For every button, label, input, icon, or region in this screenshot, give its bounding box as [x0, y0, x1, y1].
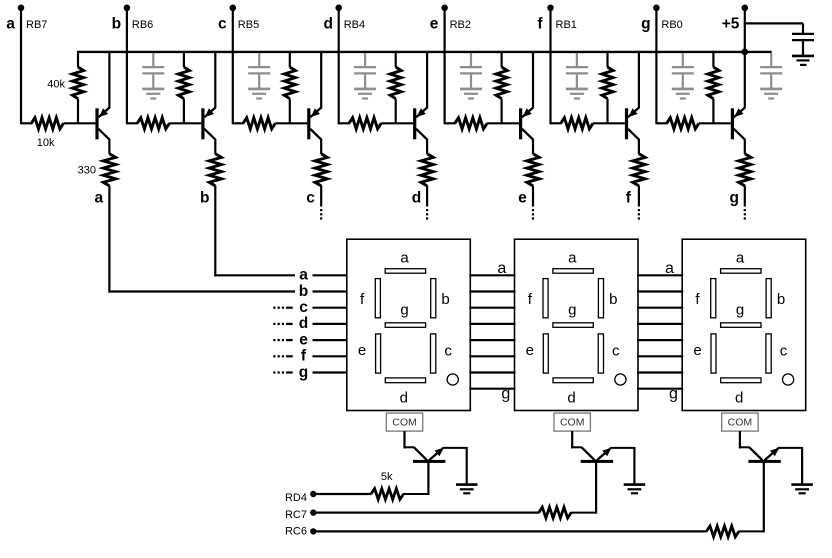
svg-text:g: g [568, 302, 576, 319]
svg-text:+5: +5 [722, 15, 740, 32]
wire bus row f to display 1 [313, 355, 348, 357]
ground digit driver 2 [624, 485, 646, 494]
node RC7 terminal dot [310, 509, 316, 515]
node c terminal dot (RB5) [230, 5, 237, 12]
wire bus row c dashed continuation [273, 307, 293, 309]
ground capacitor cell f (gray) [566, 89, 588, 99]
wire segment g output stub [744, 186, 746, 207]
wire collector cell d [426, 139, 428, 154]
resistor 10k base cell g [667, 118, 731, 129]
segment labels of DIS3 [693, 249, 787, 406]
segment g of DIS3 [721, 323, 761, 328]
decimal point of DIS3 [783, 374, 794, 385]
wire bus row b to display 1 [313, 290, 348, 292]
svg-text:g: g [400, 302, 408, 319]
resistor 330 segment f [633, 154, 645, 186]
resistor 10k base cell a [31, 118, 95, 129]
segment g of DIS2 [553, 323, 593, 328]
segment a of DIS1 [385, 269, 425, 274]
wire bus display 1 to display 2 (8 lines) [469, 275, 515, 388]
ground capacitor cell c (gray) [248, 89, 270, 99]
resistor 10k base cell e [455, 118, 519, 129]
continuation dots segment c [320, 209, 322, 220]
svg-text:d: d [412, 190, 421, 207]
ground digit driver 3 [791, 485, 813, 494]
svg-text:g: g [641, 15, 650, 32]
svg-text:a: a [736, 249, 745, 266]
transistor Q6 PNP segment driver f [625, 51, 639, 140]
segment c of DIS1 [431, 334, 436, 373]
svg-text:a: a [400, 249, 409, 266]
capacitor bypass cell f (gray) [566, 53, 588, 88]
resistor 40k pullup cell c [284, 51, 295, 123]
svg-text:RD4: RD4 [285, 492, 307, 504]
wire RB1 input vertical [549, 8, 551, 125]
resistor 10k base cell c [243, 118, 307, 129]
svg-text:RC7: RC7 [285, 509, 307, 521]
node d input label [323, 15, 365, 32]
node e input label [430, 15, 471, 32]
svg-text:g: g [736, 302, 744, 319]
node g terminal dot (RB0) [653, 5, 660, 12]
svg-text:RB6: RB6 [132, 19, 153, 31]
svg-text:5k: 5k [381, 471, 393, 483]
segment b of DIS2 [598, 279, 603, 318]
resistor 40k pullup cell a [72, 51, 83, 123]
svg-text:e: e [299, 331, 308, 348]
continuation dots segment e [532, 209, 534, 220]
resistor 330 segment d [421, 154, 433, 186]
wire base row cell a [21, 122, 32, 124]
segment d of DIS2 [553, 378, 593, 383]
wire base row cell d [339, 122, 350, 124]
svg-text:b: b [200, 190, 209, 207]
wire collector cell g [744, 139, 746, 154]
wire RD4 line [313, 493, 371, 495]
transistor Q4 PNP segment driver d [413, 51, 427, 140]
svg-text:c: c [780, 343, 788, 360]
wire base digit driver 3 [738, 463, 763, 533]
wire +5 to filter capacitor [744, 23, 803, 33]
resistor 40k pullup cell f [602, 51, 613, 123]
segment e of DIS1 [376, 334, 381, 373]
ground capacitor cell e (gray) [460, 89, 482, 99]
wire bus row e to display 1 [313, 339, 348, 341]
resistor 330 segment c [315, 154, 327, 186]
resistor 5k base digit 2 [539, 507, 572, 518]
wire RB7 input vertical [20, 8, 22, 125]
transistor Q digit driver display 3 (NPN) [748, 448, 780, 463]
capacitor bypass cell g (gray) [672, 53, 694, 88]
wire bus row d dashed continuation [273, 323, 293, 325]
wire segment c output stub [320, 186, 322, 207]
wire +5 vertical [744, 8, 746, 53]
svg-text:f: f [537, 15, 543, 32]
node c input label [218, 15, 259, 32]
node f input label [537, 15, 576, 32]
segment a of DIS2 [553, 269, 593, 274]
resistor 40k pullup cell d [390, 51, 401, 123]
wire base digit driver 1 [403, 463, 428, 496]
svg-text:b: b [777, 291, 785, 308]
svg-text:a: a [6, 15, 15, 32]
capacitor C-filter +5 (black) [792, 34, 814, 55]
ground capacitor cell b (gray) [142, 89, 164, 99]
wire bus row c to display 1 [313, 307, 348, 309]
resistor 330 segment g [739, 154, 751, 186]
svg-text:COM: COM [728, 417, 753, 429]
transistor Q2 PNP segment driver b [201, 51, 215, 140]
node a terminal dot (RB7) [18, 5, 25, 12]
wire collector cell c [320, 139, 322, 154]
node e terminal dot (RB2) [441, 5, 448, 12]
COM pin box display 3 [722, 413, 758, 431]
segment labels of DIS1 [358, 249, 452, 406]
segment labels of DIS2 [526, 249, 620, 406]
resistor 10k base cell f [561, 118, 625, 129]
svg-text:e: e [518, 190, 527, 207]
node d terminal dot (RB4) [335, 5, 342, 12]
transistor Q1 PNP segment driver a [95, 51, 109, 140]
svg-text:a: a [94, 190, 103, 207]
svg-text:b: b [609, 291, 617, 308]
wire +5 supply rail [78, 51, 772, 53]
svg-text:a: a [568, 249, 577, 266]
node f terminal dot (RB1) [547, 5, 554, 12]
svg-text:e: e [526, 342, 534, 359]
wire base row cell f [551, 122, 562, 124]
ground capacitor cell d (gray) [354, 89, 376, 99]
ground digit driver 1 [456, 485, 478, 494]
wire base digit driver 2 [571, 463, 596, 514]
svg-text:d: d [323, 15, 332, 32]
resistor 5k base digit 3 [706, 526, 739, 537]
wire bus row g dashed continuation [273, 371, 293, 373]
svg-text:c: c [612, 343, 620, 360]
resistor 40k pullup cell e [496, 51, 507, 123]
svg-text:COM: COM [560, 417, 585, 429]
junction dot +5 on rail [741, 49, 748, 56]
svg-text:330: 330 [78, 165, 96, 177]
wire collector cell e [532, 139, 534, 154]
resistor 10k base cell b [137, 118, 201, 129]
wire bus row e dashed continuation [273, 339, 293, 341]
wire RB0 input vertical [655, 8, 657, 125]
node RC6 terminal dot [310, 528, 316, 534]
node b terminal dot (RB6) [124, 5, 131, 12]
svg-text:RB2: RB2 [450, 19, 471, 31]
wire base row cell e [445, 122, 456, 124]
ground filter capacitor [792, 56, 814, 65]
capacitor bypass cell d (gray) [354, 53, 376, 88]
wire segment d output stub [426, 186, 428, 207]
wire bus row a to display 1 [313, 274, 348, 276]
svg-text:g: g [669, 385, 678, 402]
resistor 5k base digit 1 [371, 489, 404, 500]
capacitor bypass at rail end (gray) [760, 53, 782, 88]
svg-text:g: g [501, 385, 510, 402]
segment f of DIS1 [375, 279, 380, 318]
wire RB2 input vertical [444, 8, 446, 125]
svg-text:d: d [299, 315, 308, 332]
wire base row cell g [656, 122, 667, 124]
wire bus row g to display 1 [313, 371, 348, 373]
wire RB5 input vertical [232, 8, 234, 125]
wire segment e output stub [532, 186, 534, 207]
svg-text:c: c [444, 343, 452, 360]
ground rail-end capacitor (gray) [760, 89, 782, 99]
wire base row cell c [233, 122, 244, 124]
wire collector cell a [108, 139, 110, 154]
7-segment display DIS1 outline [347, 239, 471, 410]
node +5 terminal dot [742, 5, 749, 12]
svg-text:g: g [299, 364, 308, 381]
svg-text:40k: 40k [47, 79, 65, 91]
transistor Q digit driver display 1 (NPN) [413, 448, 445, 463]
capacitor bypass cell c (gray) [248, 53, 270, 88]
segment b of DIS1 [431, 279, 436, 318]
COM pin box display 1 [386, 413, 422, 431]
segment e of DIS2 [543, 334, 548, 373]
decimal point of DIS2 [615, 374, 626, 385]
svg-text:c: c [306, 190, 315, 207]
7-segment display DIS2 outline [515, 239, 639, 410]
svg-text:a: a [497, 260, 506, 277]
segment a of DIS3 [721, 269, 761, 274]
node b input label [112, 15, 154, 32]
segment g of DIS1 [385, 323, 425, 328]
wire COM display 2 to collector [571, 431, 595, 460]
wire emitter display 2 to ground [610, 447, 634, 484]
segment b of DIS3 [766, 279, 771, 318]
resistor 10k base cell d [349, 118, 413, 129]
svg-text:RB0: RB0 [661, 19, 682, 31]
resistor 330 segment e [527, 154, 539, 186]
7-segment display DIS3 outline [682, 239, 806, 410]
wire RB4 input vertical [338, 8, 340, 125]
segment d of DIS3 [721, 378, 761, 383]
wire collector cell f [638, 139, 640, 154]
wire segment f output stub [638, 186, 640, 207]
node g input label [641, 15, 683, 32]
svg-text:b: b [112, 15, 121, 32]
segment f of DIS3 [711, 279, 716, 318]
continuation dots segment d [426, 209, 428, 220]
resistor 40k pullup cell g [708, 51, 719, 123]
continuation dots segment f [638, 209, 640, 220]
capacitor bypass cell b (gray) [142, 53, 164, 88]
wire emitter display 1 to ground [443, 447, 467, 484]
svg-text:RB4: RB4 [344, 19, 365, 31]
svg-text:RB7: RB7 [26, 19, 47, 31]
wire COM display 1 to collector [404, 431, 428, 460]
wire segment b output to bus row a [214, 186, 295, 277]
wire COM display 3 to collector [739, 431, 763, 460]
svg-text:b: b [441, 291, 449, 308]
wire bus display 2 to display 3 (8 lines) [637, 275, 683, 388]
wire RC7 line [313, 511, 539, 513]
svg-text:10k: 10k [37, 137, 55, 149]
wire RB6 input vertical [126, 8, 128, 125]
transistor Q3 PNP segment driver c [307, 51, 321, 140]
svg-text:a: a [299, 267, 308, 284]
segment c of DIS3 [766, 334, 771, 373]
svg-text:RC6: RC6 [285, 526, 307, 538]
decimal point of DIS1 [447, 374, 458, 385]
svg-text:f: f [301, 348, 307, 365]
svg-text:RB1: RB1 [556, 19, 577, 31]
resistor 330 segment a [103, 154, 115, 186]
segment f of DIS2 [543, 279, 548, 318]
svg-text:a: a [665, 260, 674, 277]
node RD4 terminal dot [310, 491, 316, 497]
transistor Q digit driver display 2 (NPN) [581, 448, 613, 463]
wire collector cell b [214, 139, 216, 154]
svg-text:g: g [729, 190, 738, 207]
svg-text:d: d [735, 389, 743, 406]
svg-text:e: e [358, 342, 366, 359]
transistor Q5 PNP segment driver e [519, 51, 533, 140]
wire base row cell b [127, 122, 138, 124]
resistor 330 segment b [209, 154, 221, 186]
svg-text:c: c [218, 15, 227, 32]
svg-text:COM: COM [392, 417, 417, 429]
capacitor bypass cell e (gray) [460, 53, 482, 88]
wire bus row f dashed continuation [273, 355, 293, 357]
wire emitter display 3 to ground [778, 447, 802, 484]
svg-text:e: e [430, 15, 439, 32]
wire bus row d to display 1 [313, 323, 348, 325]
svg-text:c: c [299, 299, 308, 316]
node a input label [6, 15, 47, 32]
svg-text:b: b [299, 283, 308, 300]
segment c of DIS2 [598, 334, 603, 373]
svg-text:d: d [567, 389, 575, 406]
transistor Q7 PNP segment driver g [731, 51, 745, 140]
segment d of DIS1 [385, 378, 425, 383]
COM pin box display 2 [554, 413, 590, 431]
svg-text:e: e [693, 342, 701, 359]
svg-text:d: d [400, 389, 408, 406]
continuation dots segment g [744, 209, 746, 220]
segment e of DIS3 [711, 334, 716, 373]
resistor 40k pullup cell b [178, 51, 189, 123]
ground capacitor cell g (gray) [672, 89, 694, 99]
wire segment a output to bus row b [108, 186, 295, 293]
wire RC6 line [313, 530, 707, 532]
svg-text:f: f [626, 190, 632, 207]
svg-text:RB5: RB5 [238, 19, 259, 31]
